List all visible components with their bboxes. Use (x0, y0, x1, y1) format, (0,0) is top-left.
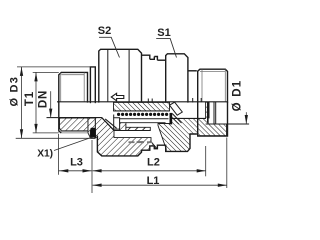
arrow T1 top (34, 72, 37, 81)
dimension line L2 (93, 170, 206, 172)
left stud thread outline (top view) (59, 72, 88, 102)
right port thread line 2 (215, 102, 217, 124)
right stud root line (200, 71, 225, 73)
flow direction arrow (111, 93, 124, 101)
right port thread line 1 (213, 102, 215, 124)
left stud chamfer line right (83, 73, 85, 102)
right stud chamfer line right (224, 70, 226, 102)
arrow L2 right (197, 169, 206, 172)
hatched section: insert strip (126, 127, 150, 130)
svg-text:L1: L1 (147, 175, 160, 187)
svg-text:Ø D3: Ø D3 (8, 76, 20, 106)
arrow L2 left (93, 169, 102, 172)
dimension line L3 (59, 170, 92, 172)
nut chamber floor (171, 117, 206, 119)
bore line DN (47, 117, 102, 119)
hatched section: seal washer ring (88, 118, 95, 138)
hatched section: left stud wall (body) (60, 118, 89, 131)
right port cone edge a (192, 98, 194, 103)
spring sleeve left edge (113, 115, 115, 118)
body socket tick a (147, 99, 149, 103)
right port socket line 1 (207, 102, 209, 123)
leader S2 (99, 37, 120, 57)
body socket tick b (151, 99, 153, 103)
captive seal X1 (black) (91, 128, 96, 137)
svg-text:DN: DN (37, 90, 49, 108)
arrow L3 right (83, 169, 92, 172)
svg-text:L3: L3 (70, 156, 83, 168)
hex S2 facet line 2 (128, 50, 130, 102)
nut bore edge (158, 123, 171, 125)
seal washer edges (section) (89, 130, 91, 139)
hex S2 facet line 1 (107, 49, 109, 102)
spring retainer bar (black) (170, 113, 173, 125)
ext line left stud face (58, 134, 60, 175)
arrow D1 (245, 115, 248, 124)
retainer diagonal 1 (172, 114, 181, 124)
svg-text:X1): X1) (37, 148, 53, 159)
leader X1 (54, 137, 93, 151)
poppet cone line (105, 119, 116, 128)
left stud chamfer line left (60, 73, 62, 102)
hex S1 outline (top view) (166, 54, 188, 103)
dimension line T1 (35, 72, 37, 132)
svg-text:S2: S2 (98, 25, 111, 37)
poppet gland parallelogram (170, 102, 183, 115)
bore edge line D1 (206, 123, 250, 125)
hatched section: swivel nut (158, 102, 227, 151)
svg-text:Ø D1: Ø D1 (231, 80, 243, 112)
section top edge at axis (57, 101, 228, 103)
right port socket line 2 (208, 102, 210, 119)
nut shelf outline (157, 59, 165, 61)
dim extension line stud top (33, 71, 59, 73)
hatched section: valve body main (95, 118, 157, 156)
arrow L3 left (59, 169, 68, 172)
valve chamber floor (114, 130, 150, 132)
right stud thread outline (top view) (198, 69, 228, 102)
dim extension DN tick (47, 117, 59, 119)
hatched section: insert flange (120, 123, 126, 131)
svg-text:S1: S1 (157, 27, 170, 39)
left stud face (section) (59, 102, 62, 133)
ext line washer face (91, 140, 93, 193)
dimension line D1 (245, 112, 247, 124)
poppet stem bottom line (114, 110, 170, 112)
arrow DN (49, 109, 52, 118)
right stud chamfer line left (201, 70, 203, 102)
arrow L1 right (218, 184, 227, 187)
right port cone edge b (200, 98, 202, 102)
svg-text:L2: L2 (147, 156, 160, 168)
left stud thread root line (61, 74, 84, 76)
dimension line L1 (93, 184, 227, 186)
body collar outline (142, 55, 150, 59)
arrow T1 bottom (34, 124, 37, 133)
retainer diagonal 2 (172, 118, 179, 125)
right stud bottom outline (198, 102, 228, 136)
left stud thread OD bottom line (61, 132, 87, 134)
arrow D3 top (20, 67, 23, 76)
dim extension line bottom (washer bottom) (16, 137, 91, 139)
arrow L1 left (93, 184, 102, 187)
body thread root line (gray) (137, 141, 144, 143)
dim extension line stud bottom (33, 132, 59, 134)
cage inner edge line (126, 122, 166, 124)
groove between body and nut (150, 57, 155, 60)
dimension line DN (50, 91, 52, 117)
left stud wall bottom boundary (61, 130, 88, 132)
spring sleeve line (120, 118, 169, 120)
valve seat cone (102, 118, 114, 131)
svg-text:T1: T1 (24, 91, 36, 106)
check valve spring coils (117, 113, 120, 116)
neck between hex S1 and right stud (188, 70, 197, 72)
dim extension line top (washer top) (17, 66, 90, 68)
dimension line D3 (21, 67, 23, 138)
thread root dashes (gray) (129, 141, 135, 143)
leader S1 (156, 39, 176, 58)
body outline bottom-left (97, 134, 196, 156)
hex S2 outline (top view) (99, 49, 142, 102)
nut skirt outline (154, 57, 157, 61)
ext line right end face (226, 138, 228, 189)
ext line nut end (205, 146, 207, 176)
hatched section: poppet stem (114, 102, 170, 111)
arrow D3 bottom (20, 129, 23, 138)
poppet guide flange (white) (114, 118, 120, 129)
seal washer outline (top view) (90, 67, 95, 103)
